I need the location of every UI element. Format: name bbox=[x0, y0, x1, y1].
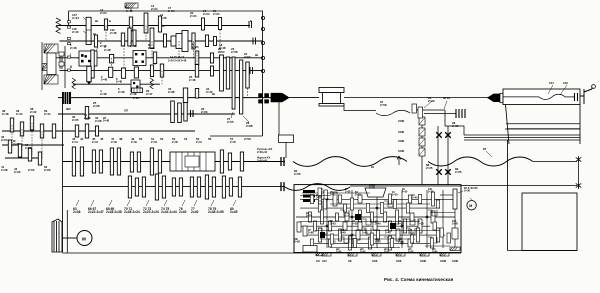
svg-text:Ш: Ш bbox=[212, 92, 215, 96]
svg-text:XXIII: XXIII bbox=[398, 130, 404, 134]
extra gears shaft2 bbox=[164, 34, 167, 47]
svg-text:Б: Б bbox=[109, 19, 111, 23]
spindle bbox=[58, 97, 288, 99]
pulley bracket sides bbox=[41, 42, 43, 90]
feed shaft upper bbox=[63, 161, 286, 163]
motor pulley bbox=[52, 219, 62, 252]
headstock frame top bbox=[69, 10, 263, 12]
spindle rear pulley block bbox=[62, 92, 71, 104]
left small gears below box bbox=[297, 222, 301, 232]
bearing ticks shaft II right bbox=[249, 67, 251, 74]
feed box shafts bbox=[300, 198, 455, 200]
takeoff gears bbox=[412, 104, 417, 113]
coupling shaft VII bbox=[191, 110, 194, 117]
svg-text:101: 101 bbox=[549, 81, 554, 85]
bed line upper bbox=[505, 128, 580, 130]
svg-text:М: М bbox=[82, 236, 86, 241]
gears shaft2 bbox=[94, 35, 97, 47]
bed inner rect bbox=[522, 193, 577, 251]
center line to tailstock bbox=[344, 97, 488, 99]
tailstock body bbox=[506, 105, 581, 145]
bottom frame line bbox=[63, 252, 462, 254]
spring support III right bbox=[150, 78, 154, 89]
spring support shaft 1 bbox=[56, 18, 61, 33]
leadscrew asterisk bbox=[576, 156, 581, 163]
svg-text:XXIII: XXIII bbox=[398, 119, 404, 123]
spindle nose center bbox=[271, 93, 289, 102]
feed rod wavy bbox=[285, 184, 350, 191]
left bottom corner detail bbox=[303, 246, 317, 253]
shaft 1 top bbox=[60, 25, 251, 27]
gear II-III link bbox=[87, 66, 91, 81]
extra small squares clutch bbox=[85, 55, 87, 57]
extra gears shaft I mid bbox=[153, 52, 156, 64]
aux motor shaft bbox=[440, 194, 453, 196]
svg-text:2=52: 2=52 bbox=[28, 168, 35, 172]
feed box top left extra bbox=[318, 188, 321, 196]
apron shaft gears bbox=[419, 117, 425, 125]
svg-text:2=40+44: 2=40+44 bbox=[257, 160, 267, 163]
feed shaft lower bbox=[63, 186, 286, 188]
bearing ticks shaft1 right bbox=[248, 21, 250, 28]
clutch 7 bracket bbox=[133, 51, 146, 66]
gear row lower bbox=[128, 176, 131, 198]
aux shaft III bbox=[73, 83, 160, 85]
carriage notch bbox=[279, 135, 294, 143]
svg-text:ЖЛ: ЖЛ bbox=[65, 107, 71, 111]
gear on spindle bbox=[183, 88, 187, 103]
extra mesh dashes shaft2 bbox=[151, 41, 153, 58]
gear cluster 22 23 24 bbox=[220, 55, 224, 91]
bed left vertical bbox=[507, 140, 509, 251]
chuck bbox=[319, 88, 344, 93]
svg-text:XX: XX bbox=[316, 259, 320, 263]
bed ways lines bbox=[464, 134, 580, 136]
feed box left stack bbox=[303, 190, 315, 193]
gear block shaft1 bbox=[86, 17, 91, 44]
feed box verticals bbox=[326, 190, 328, 248]
svg-text:102: 102 bbox=[563, 81, 568, 85]
svg-text:2=45: 2=45 bbox=[230, 140, 236, 144]
aux motor M2 bbox=[467, 201, 476, 210]
svg-text:93 94: 93 94 bbox=[443, 96, 450, 100]
long gear 27 bbox=[232, 57, 235, 109]
feed box feet bbox=[322, 253, 331, 257]
svg-text:ХП: ХП bbox=[124, 109, 128, 113]
carriage right outline bbox=[445, 110, 464, 135]
feed rod line bbox=[350, 185, 461, 187]
svg-text:87: 87 bbox=[483, 147, 487, 151]
svg-text:2=43: 2=43 bbox=[151, 140, 157, 144]
shaft VII under spindle bbox=[58, 113, 235, 115]
link asterisks vertical bbox=[578, 163, 580, 182]
svg-text:II: II bbox=[70, 65, 72, 69]
change-gear shaft rows bbox=[2, 130, 195, 132]
tailstock coupling bbox=[575, 93, 578, 101]
headstock frame right edge bbox=[262, 11, 264, 136]
spindle small clutch bbox=[132, 88, 143, 93]
svg-text:XXIII: XXIII bbox=[452, 259, 458, 263]
bed bottom bbox=[508, 250, 578, 252]
clutch X lower bbox=[436, 169, 442, 175]
svg-text:XXII: XXII bbox=[372, 259, 378, 263]
feed takeoff squiggle bbox=[376, 110, 410, 115]
shaft II mid bbox=[60, 70, 264, 72]
svg-text:2=44: 2=44 bbox=[92, 140, 98, 144]
carriage top step bbox=[344, 106, 376, 111]
joint bars bbox=[456, 109, 465, 118]
mounting hatch above frame bbox=[125, 3, 138, 8]
spring support III bbox=[72, 78, 76, 89]
svg-text:81: 81 bbox=[371, 165, 375, 169]
clutch X upper bbox=[436, 132, 442, 138]
tailstock handwheel bbox=[580, 87, 592, 104]
svg-text:2=46: 2=46 bbox=[111, 140, 117, 144]
feed box extra gears bbox=[310, 195, 313, 204]
bearing blocks shaft II bbox=[68, 56, 71, 58]
gear row upper bbox=[72, 147, 75, 176]
mesh dashes change gears bbox=[11, 125, 13, 147]
left vertical frame bbox=[62, 104, 64, 253]
bearing blocks left frame bbox=[68, 21, 71, 23]
gears shaft VIII right bbox=[75, 125, 78, 137]
svg-text:XXIII: XXIII bbox=[420, 259, 426, 263]
svg-text:XXI: XXI bbox=[322, 259, 327, 263]
svg-text:XXIII: XXIII bbox=[398, 139, 404, 143]
extra gears shaft II mid bbox=[150, 65, 153, 77]
tailstock top rect bbox=[503, 89, 580, 105]
mesh dash 24-28 bbox=[247, 88, 249, 96]
svg-text:44: 44 bbox=[80, 137, 84, 141]
feed box circles bbox=[326, 198, 328, 200]
svg-text:2=24 2=34 2=48: 2=24 2=34 2=48 bbox=[168, 59, 187, 62]
svg-text:54: 54 bbox=[184, 137, 188, 141]
headstock frame bottom right bbox=[210, 135, 263, 137]
feed rod asterisk bbox=[576, 182, 581, 189]
svg-text:50: 50 bbox=[139, 137, 143, 141]
shaft 2 top bbox=[60, 40, 264, 42]
svg-text:2=40: 2=40 bbox=[131, 140, 137, 144]
svg-text:46: 46 bbox=[100, 137, 104, 141]
feed box step brackets bbox=[318, 201, 327, 207]
friction clutch shaft I bbox=[79, 51, 97, 66]
svg-text:2=36+44: 2=36+44 bbox=[257, 151, 267, 154]
gears shaft I right bbox=[110, 54, 114, 63]
svg-text:М: М bbox=[469, 204, 472, 208]
coupling feed upper bbox=[281, 157, 284, 166]
mesh dash 21-22 bbox=[219, 30, 221, 58]
right vertical gears bbox=[454, 209, 456, 247]
tailstock screw bbox=[503, 96, 539, 98]
svg-text:XII: XII bbox=[348, 259, 352, 263]
arrow symbol bbox=[397, 156, 401, 165]
svg-text:56: 56 bbox=[208, 137, 212, 141]
left change gear cluster bbox=[10, 118, 13, 132]
svg-text:48: 48 bbox=[119, 137, 123, 141]
cone pulley block bbox=[171, 36, 176, 46]
mesh dashes row1 bbox=[105, 26, 107, 42]
feed box gears bbox=[319, 193, 322, 205]
svg-text:2=41: 2=41 bbox=[72, 140, 78, 144]
gears shaft II bbox=[109, 67, 113, 77]
motor M1 bbox=[77, 231, 92, 246]
feed box extra lines bbox=[302, 192, 370, 194]
tall gear pair left bbox=[91, 50, 94, 78]
svg-text:К0Р82=35: К0Р82=35 bbox=[369, 183, 376, 189]
input shaft I bbox=[48, 57, 263, 59]
carriage left edge bbox=[278, 100, 280, 135]
frame corner motor bbox=[66, 210, 68, 253]
svg-text:2=46: 2=46 bbox=[172, 140, 178, 144]
gears shaft VII bbox=[85, 107, 88, 120]
apron verticals bbox=[437, 126, 439, 185]
leadscrew line right bbox=[533, 161, 577, 163]
tailstock quill bbox=[500, 93, 503, 102]
feed box dark clutches bbox=[355, 214, 361, 220]
extra mesh dashes II bbox=[154, 64, 156, 66]
svg-text:2=28: 2=28 bbox=[133, 97, 139, 100]
clutch box shaft III bbox=[131, 80, 140, 90]
svg-text:2=56: 2=56 bbox=[244, 137, 251, 141]
spindle chuck line bbox=[289, 97, 319, 99]
svg-text:XXIII: XXIII bbox=[398, 149, 404, 153]
svg-text:Рис. 4. Схема кинематическая: Рис. 4. Схема кинематическая bbox=[384, 277, 454, 282]
svg-text:Ш: Ш bbox=[93, 32, 96, 36]
drive pulley assembly bbox=[44, 44, 58, 53]
bearing ticks shaft2 right bbox=[252, 38, 254, 45]
svg-text:XXIII: XXIII bbox=[440, 259, 446, 263]
svg-text:Ш: Ш bbox=[255, 53, 258, 57]
mesh dashes I-II bbox=[123, 45, 125, 69]
extra gears shaft1 bbox=[158, 16, 161, 32]
coupling feed lower bbox=[281, 182, 284, 191]
motor belt line bbox=[62, 237, 77, 239]
cone block bbox=[365, 188, 386, 197]
feed box frame bbox=[294, 185, 461, 253]
svg-text:Б: Б bbox=[250, 19, 252, 23]
gear right of cone bbox=[192, 33, 195, 49]
norton clutch block bbox=[170, 152, 215, 171]
svg-text:Ш: Ш bbox=[95, 19, 98, 23]
svg-text:2=41: 2=41 bbox=[196, 140, 202, 144]
svg-text:52: 52 bbox=[160, 137, 164, 141]
svg-text:XXII: XXII bbox=[396, 259, 402, 263]
spindle front bearings bbox=[258, 93, 263, 97]
tailstock center cone bbox=[488, 94, 500, 102]
leadscrew wavy right bbox=[428, 157, 533, 166]
apron vertical shaft bbox=[421, 113, 423, 185]
feed box bottom right gears bbox=[440, 228, 443, 237]
long gear 28 bbox=[240, 60, 243, 114]
gears shaft1 mid bbox=[104, 19, 107, 30]
leadscrew wavy left bbox=[293, 157, 407, 167]
